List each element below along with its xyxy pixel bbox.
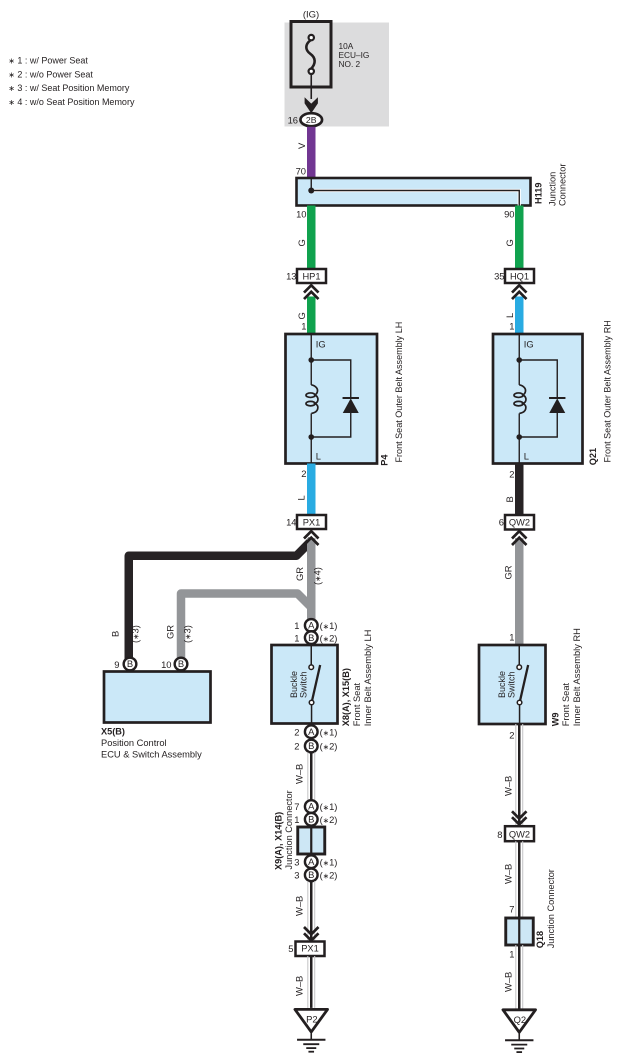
fuse block gray panel xyxy=(285,23,390,127)
svg-text:GR: GR xyxy=(503,565,514,579)
svg-text:(∗2): (∗2) xyxy=(320,632,338,643)
svg-text:8: 8 xyxy=(497,829,502,840)
svg-text:9: 9 xyxy=(114,659,119,670)
svg-text:A: A xyxy=(308,726,315,737)
svg-text:B: B xyxy=(127,658,133,669)
svg-text:(∗1): (∗1) xyxy=(320,801,338,812)
svg-text:1: 1 xyxy=(294,620,299,631)
fuse value label xyxy=(339,41,370,69)
svg-text:Front Seat Outer Belt Assembly: Front Seat Outer Belt Assembly LH xyxy=(394,322,404,463)
svg-text:Position Control: Position Control xyxy=(101,738,167,748)
svg-text:5: 5 xyxy=(288,943,293,954)
svg-text:PX1: PX1 xyxy=(301,944,319,954)
svg-text:QW2: QW2 xyxy=(509,518,530,528)
wire GR main RH xyxy=(515,538,524,645)
fuse F 10A ECU-IG NO.2 box xyxy=(291,22,331,88)
buckle switch LH box X8(A) X15(B) xyxy=(272,645,338,724)
svg-text:1: 1 xyxy=(294,814,299,825)
shield chevrons below PX1 xyxy=(304,531,319,545)
svg-text:G: G xyxy=(504,239,515,246)
svg-text:IG: IG xyxy=(524,339,534,350)
svg-text:W–B: W–B xyxy=(503,972,514,992)
shield chevrons below HP1 xyxy=(304,285,319,299)
svg-text:7: 7 xyxy=(509,903,514,914)
svg-text:2: 2 xyxy=(294,726,299,737)
svg-text:IG: IG xyxy=(316,339,326,350)
shield chevrons below HQ1 xyxy=(512,285,527,299)
svg-text:(∗2): (∗2) xyxy=(320,741,338,752)
svg-text:1: 1 xyxy=(509,321,514,332)
svg-text:G: G xyxy=(296,312,307,319)
svg-text:Buckle: Buckle xyxy=(497,671,507,698)
svg-text:Q21: Q21 xyxy=(588,448,598,465)
svg-text:2: 2 xyxy=(301,468,306,479)
svg-text:Front Seat: Front Seat xyxy=(352,682,362,726)
svg-text:10: 10 xyxy=(296,209,306,220)
svg-text:Switch: Switch xyxy=(506,671,516,698)
svg-text:B: B xyxy=(308,632,314,643)
svg-text:Inner Belt Assembly RH: Inner Belt Assembly RH xyxy=(572,628,582,726)
wire G right xyxy=(515,206,524,270)
svg-text:(∗3): (∗3) xyxy=(130,625,141,643)
svg-text:Front Seat: Front Seat xyxy=(561,682,571,726)
wire L to Q21 xyxy=(515,297,524,335)
svg-text:Inner Belt Assembly LH: Inner Belt Assembly LH xyxy=(363,630,373,727)
svg-text:Switch: Switch xyxy=(298,671,308,698)
ground P2 xyxy=(295,1009,328,1051)
svg-text:B: B xyxy=(308,814,314,825)
wire W-B LH segment 1 xyxy=(307,752,315,800)
svg-text:Connector: Connector xyxy=(557,164,567,206)
wire W-B RH segment 3 xyxy=(515,945,523,1009)
svg-text:NO. 2: NO. 2 xyxy=(339,59,361,69)
wire W-B RH segment 2 xyxy=(515,841,523,918)
svg-text:1: 1 xyxy=(509,632,514,643)
svg-text:B: B xyxy=(110,631,121,637)
svg-text:L: L xyxy=(504,313,515,318)
svg-text:2: 2 xyxy=(294,741,299,752)
svg-text:(∗1): (∗1) xyxy=(320,726,338,737)
fuse symbol xyxy=(306,35,314,74)
wire G left xyxy=(307,206,316,270)
X5(B) Position Control ECU box xyxy=(104,672,211,723)
svg-text:35: 35 xyxy=(494,271,504,282)
svg-text:L: L xyxy=(316,451,321,462)
svg-text:B: B xyxy=(308,740,314,751)
svg-text:3: 3 xyxy=(294,870,299,881)
svg-text:2: 2 xyxy=(509,730,514,741)
wire W-B LH segment 2 xyxy=(307,881,315,941)
wire G to P4 xyxy=(307,297,316,335)
svg-text:V: V xyxy=(296,142,307,149)
svg-text:GR: GR xyxy=(294,567,305,581)
svg-text:Q2: Q2 xyxy=(514,1014,527,1025)
svg-text:(IG): (IG) xyxy=(303,10,319,21)
svg-text:L: L xyxy=(524,451,529,462)
svg-text:A: A xyxy=(308,801,315,812)
svg-text:∗ 3 : w/ Seat Position Memory: ∗ 3 : w/ Seat Position Memory xyxy=(8,83,130,93)
svg-text:PX1: PX1 xyxy=(303,518,321,528)
svg-text:1: 1 xyxy=(509,949,514,960)
svg-text:W–B: W–B xyxy=(294,764,305,784)
wire B branch to X5 xyxy=(129,540,312,661)
svg-text:X5(B): X5(B) xyxy=(101,727,125,737)
arrowhead xyxy=(305,97,318,113)
svg-text:(∗2): (∗2) xyxy=(320,870,338,881)
svg-text:∗ 1 : w/ Power Seat: ∗ 1 : w/ Power Seat xyxy=(8,56,88,66)
svg-text:A: A xyxy=(308,620,315,631)
svg-text:2: 2 xyxy=(509,469,514,480)
buckle switch RH box W9 xyxy=(479,645,546,724)
wire from fuse to connector 2B xyxy=(310,74,312,100)
Q21 Front Seat Outer Belt Assembly RH xyxy=(493,334,583,464)
svg-text:90: 90 xyxy=(504,209,514,220)
legend note xyxy=(8,56,135,107)
svg-text:13: 13 xyxy=(286,271,296,282)
svg-text:Junction Connector: Junction Connector xyxy=(284,790,294,869)
shield chevrons above PX1 pin5 xyxy=(304,927,319,941)
svg-text:16: 16 xyxy=(288,114,298,125)
ground Q2 xyxy=(503,1010,536,1052)
svg-text:10: 10 xyxy=(161,659,171,670)
svg-text:ECU & Switch Assembly: ECU & Switch Assembly xyxy=(101,750,202,760)
wire W-B LH segment 3 xyxy=(307,956,315,1008)
svg-text:1: 1 xyxy=(294,632,299,643)
svg-text:B: B xyxy=(178,658,184,669)
svg-text:X8(A), X15(B): X8(A), X15(B) xyxy=(341,668,351,726)
svg-text:∗ 4 : w/o Seat Position Memory: ∗ 4 : w/o Seat Position Memory xyxy=(8,97,135,107)
svg-text:A: A xyxy=(308,856,315,867)
svg-text:Junction: Junction xyxy=(548,172,558,206)
svg-text:2B: 2B xyxy=(306,115,317,125)
svg-text:P2: P2 xyxy=(306,1014,317,1025)
svg-text:W9: W9 xyxy=(551,713,561,727)
svg-text:W–B: W–B xyxy=(503,776,514,796)
svg-text:Q18: Q18 xyxy=(535,931,545,948)
wire L below P4 xyxy=(307,464,316,516)
svg-text:Junction Connector: Junction Connector xyxy=(546,869,556,948)
svg-text:(∗2): (∗2) xyxy=(320,814,338,825)
shield chevrons above QW2 pin8 xyxy=(512,811,527,824)
svg-text:B: B xyxy=(308,869,314,880)
svg-text:14: 14 xyxy=(286,517,296,528)
svg-text:L: L xyxy=(296,495,307,500)
connector oval 2B pin 16 xyxy=(300,113,322,126)
svg-text:Buckle: Buckle xyxy=(289,671,299,698)
svg-text:7: 7 xyxy=(294,801,299,812)
junction connector X9(A) X14(B) xyxy=(298,827,325,854)
svg-text:W–B: W–B xyxy=(503,864,514,884)
junction connector H119 xyxy=(297,178,531,206)
svg-text:B: B xyxy=(504,496,515,502)
H119 internal wire xyxy=(311,191,519,206)
wire B below Q21 xyxy=(515,464,524,516)
shield chevrons below QW2 xyxy=(512,531,527,545)
svg-text:W–B: W–B xyxy=(294,976,305,996)
wire V (violet) xyxy=(307,127,316,179)
svg-text:(∗1): (∗1) xyxy=(320,620,338,631)
svg-text:(∗4): (∗4) xyxy=(312,567,323,585)
junction dot xyxy=(308,188,314,194)
svg-text:H119: H119 xyxy=(534,183,544,204)
svg-text:HP1: HP1 xyxy=(302,272,320,282)
svg-text:P4: P4 xyxy=(379,454,389,466)
svg-text:∗ 2 : w/o Power Seat: ∗ 2 : w/o Power Seat xyxy=(8,69,93,79)
junction connector Q18 xyxy=(506,918,534,945)
svg-text:(∗1): (∗1) xyxy=(320,856,338,867)
svg-text:G: G xyxy=(296,239,307,246)
svg-text:W–B: W–B xyxy=(294,896,305,916)
svg-text:Front Seat Outer Belt Assembly: Front Seat Outer Belt Assembly RH xyxy=(602,320,612,462)
svg-text:1: 1 xyxy=(301,321,306,332)
wire GR main LH xyxy=(307,538,316,619)
wire GR branch to X5 xyxy=(181,594,311,662)
svg-text:X9(A), X14(B): X9(A), X14(B) xyxy=(274,812,284,870)
svg-text:3: 3 xyxy=(294,856,299,867)
svg-text:HQ1: HQ1 xyxy=(510,272,529,282)
svg-text:(∗3): (∗3) xyxy=(182,625,193,643)
svg-text:70: 70 xyxy=(296,166,306,177)
svg-text:QW2: QW2 xyxy=(509,830,530,840)
svg-text:6: 6 xyxy=(499,517,504,528)
P4 Front Seat Outer Belt Assembly LH xyxy=(286,334,378,464)
svg-text:GR: GR xyxy=(165,625,176,639)
wire W-B RH segment 1 xyxy=(515,724,523,827)
